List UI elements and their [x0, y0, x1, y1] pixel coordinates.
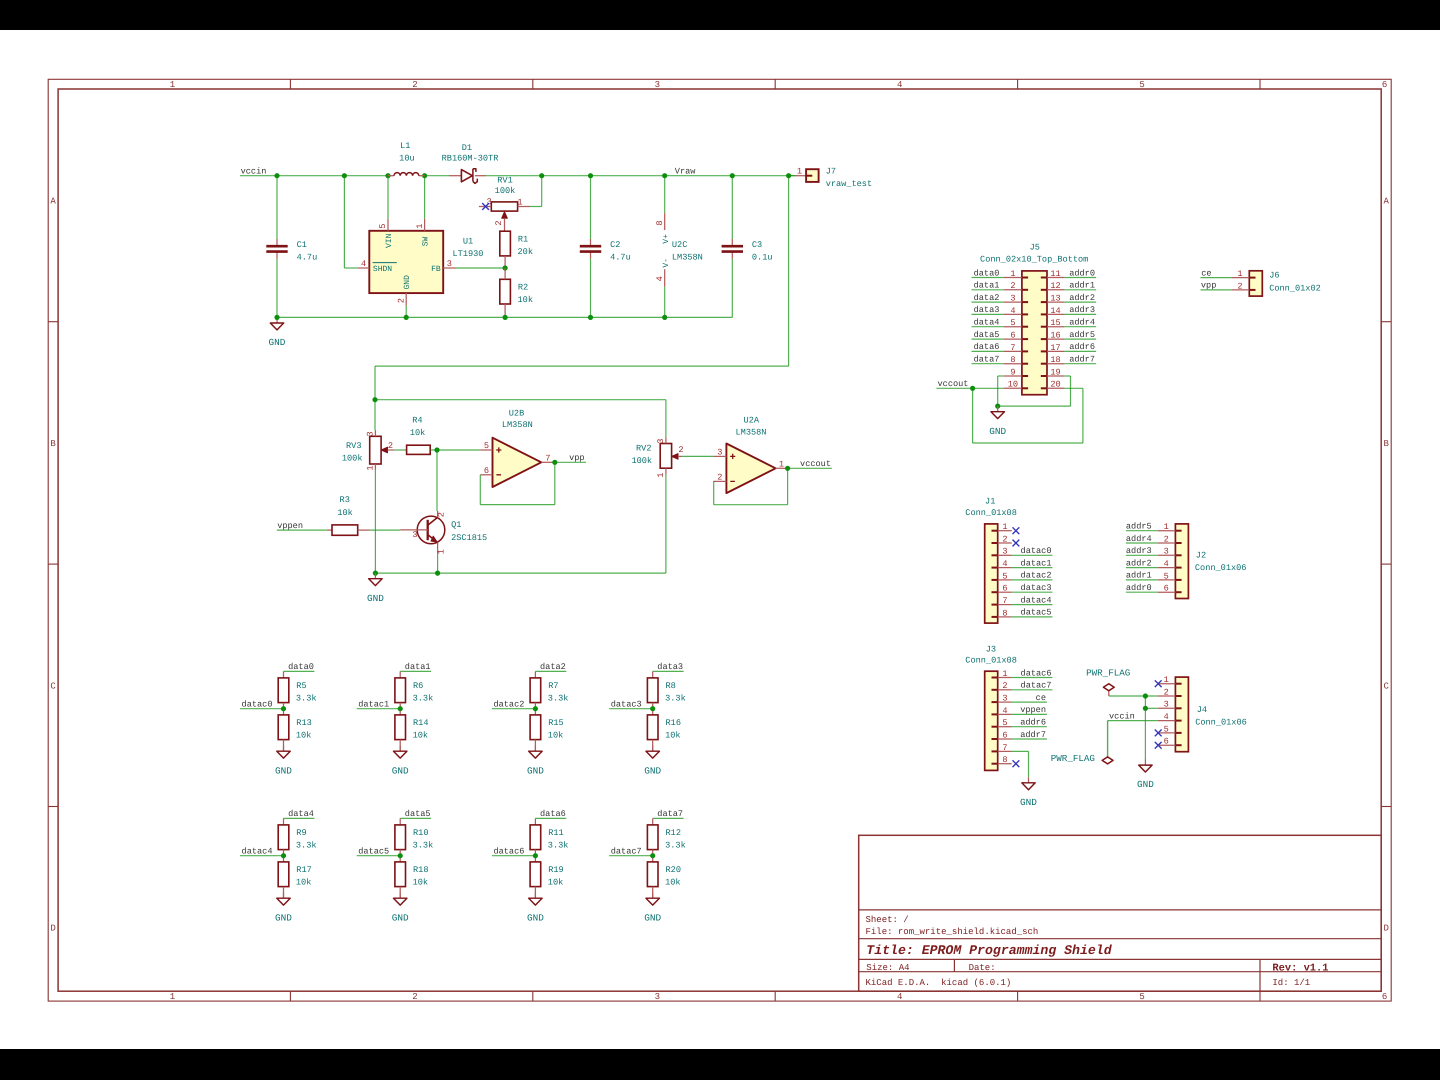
svg-text:vraw_test: vraw_test: [826, 179, 872, 189]
svg-text:R10: R10: [413, 828, 428, 838]
no-connect J1 pin 1: [1013, 527, 1020, 534]
svg-text:GND: GND: [1137, 779, 1154, 790]
wire data4: [284, 817, 315, 819]
svg-text:GND: GND: [1020, 797, 1037, 808]
wire vccout: [788, 467, 832, 469]
junction: [588, 315, 593, 320]
junction: [274, 173, 279, 178]
resistor R5: [278, 678, 316, 704]
transistor Q1: [400, 511, 487, 554]
pin 8 J5: [1004, 355, 1028, 365]
pin 2 U1 GND: [405, 293, 407, 305]
junction: [995, 404, 1000, 409]
svg-text:18: 18: [1050, 355, 1060, 365]
svg-text:1: 1: [436, 549, 446, 554]
svg-text:10k: 10k: [337, 508, 352, 518]
pin 2 J2: [1158, 534, 1182, 544]
svg-text:vpp: vpp: [1201, 281, 1216, 291]
svg-text:3: 3: [366, 431, 376, 436]
svg-text:2: 2: [1010, 281, 1015, 291]
pin 8 U2C V+: [664, 213, 666, 230]
svg-text:D: D: [1383, 924, 1388, 934]
svg-text:PWR_FLAG: PWR_FLAG: [1086, 668, 1130, 679]
pin 3 J4: [1158, 700, 1182, 710]
svg-text:datac0: datac0: [1021, 546, 1052, 556]
pin 1 J5: [1004, 269, 1028, 279]
pin 7 J5: [1004, 343, 1028, 353]
svg-text:addr0: addr0: [1069, 268, 1095, 278]
resistor R11: [530, 825, 568, 851]
svg-text:J1: J1: [985, 496, 995, 506]
svg-text:R8: R8: [666, 681, 676, 691]
pin 4 J4: [1158, 712, 1182, 722]
junction: [785, 466, 790, 471]
pin 3 U2A: [713, 455, 726, 457]
wire data5 to J5: [972, 338, 1004, 340]
svg-text:data3: data3: [657, 662, 683, 672]
svg-text:R19: R19: [548, 865, 563, 875]
svg-text:Conn_01x08: Conn_01x08: [965, 656, 1017, 666]
wire data1: [400, 670, 431, 672]
svg-text:3.3k: 3.3k: [296, 841, 317, 851]
svg-text:10: 10: [1008, 380, 1018, 390]
pin 16 J5: [1041, 330, 1065, 340]
svg-text:0.1u: 0.1u: [752, 253, 773, 263]
svg-text:GND: GND: [989, 426, 1006, 437]
svg-text:addr7: addr7: [1069, 355, 1095, 365]
svg-text:Vraw: Vraw: [675, 167, 696, 177]
svg-text:12: 12: [1050, 281, 1060, 291]
svg-text:1: 1: [517, 198, 522, 208]
svg-text:Conn_01x06: Conn_01x06: [1195, 563, 1247, 573]
svg-text:3: 3: [656, 439, 666, 444]
pin 5 U1 VIN: [387, 219, 389, 231]
ground rail wire: [277, 316, 732, 318]
svg-text:SHDN: SHDN: [373, 265, 392, 274]
svg-text:data1: data1: [405, 662, 431, 672]
pin 5 J4: [1158, 724, 1182, 734]
svg-text:8: 8: [655, 220, 665, 225]
wire datac4: [240, 855, 284, 857]
op-amp U2C power unit: [655, 176, 703, 318]
svg-text:File: rom_write_shield.kicad_s: File: rom_write_shield.kicad_sch: [866, 927, 1039, 937]
svg-text:data5: data5: [974, 330, 1000, 340]
wire J5 pin 9 to ground: [998, 375, 1004, 377]
svg-text:data7: data7: [657, 809, 683, 819]
svg-text:10k: 10k: [665, 731, 680, 741]
svg-text:V-: V-: [662, 258, 671, 268]
pin 20 J5: [1041, 380, 1065, 390]
svg-text:6: 6: [1010, 330, 1015, 340]
svg-text:datac1: datac1: [358, 700, 389, 710]
svg-text:GND: GND: [527, 912, 544, 923]
svg-text:3: 3: [1010, 294, 1015, 304]
pin 7 J3: [992, 743, 1012, 753]
svg-text:A: A: [1383, 197, 1389, 207]
svg-text:10k: 10k: [413, 878, 428, 888]
svg-text:1: 1: [779, 459, 784, 469]
svg-text:11: 11: [1050, 269, 1060, 279]
svg-text:addr2: addr2: [1069, 293, 1095, 303]
svg-text:5: 5: [1010, 318, 1015, 328]
svg-text:5: 5: [1164, 571, 1169, 581]
svg-text:D: D: [50, 924, 55, 934]
resistor R6: [395, 678, 433, 704]
svg-text:GND: GND: [275, 765, 292, 776]
wire datac5: [357, 855, 401, 857]
svg-text:10k: 10k: [296, 731, 311, 741]
svg-text:addr6: addr6: [1069, 342, 1095, 352]
svg-text:8: 8: [1010, 355, 1015, 365]
wire vccout to J5 pin 20: [972, 388, 974, 443]
svg-text:2SC1815: 2SC1815: [451, 533, 487, 543]
junction: [373, 571, 378, 576]
resistor R2 body: [500, 279, 533, 305]
pin 5 J3: [992, 718, 1012, 728]
pin 6 J5: [1004, 330, 1028, 340]
svg-text:GND: GND: [527, 765, 544, 776]
svg-text:3: 3: [447, 259, 452, 269]
wire J1 pin 5 to datac2: [1012, 579, 1053, 581]
wire J3 pin 5 to addr6: [1012, 726, 1047, 728]
svg-text:GND: GND: [644, 912, 661, 923]
svg-text:Rev: v1.1: Rev: v1.1: [1272, 962, 1328, 974]
svg-text:R7: R7: [548, 681, 558, 691]
wire data3: [653, 670, 684, 672]
connector J3 Conn_01x08: [965, 645, 1017, 771]
svg-text:datac3: datac3: [611, 700, 642, 710]
svg-text:RV3: RV3: [346, 441, 361, 451]
svg-text:6: 6: [1164, 584, 1169, 594]
capacitor C1 plates: [266, 239, 317, 263]
wire R4 to U2B +: [437, 449, 480, 451]
no-connect J4 pin 5: [1155, 730, 1162, 737]
svg-text:2: 2: [396, 298, 406, 303]
svg-text:U2C: U2C: [672, 240, 687, 250]
junction: [1143, 706, 1148, 711]
svg-text:3: 3: [487, 197, 492, 207]
svg-text:KiCad E.D.A. kicad (6.0.1): KiCad E.D.A. kicad (6.0.1): [866, 978, 1012, 988]
junction: [503, 265, 508, 270]
ground at R14: [392, 746, 409, 777]
junction: [342, 173, 347, 178]
ground at R13: [275, 746, 292, 777]
pin 1 J3: [992, 669, 1012, 679]
resistor R3: [327, 495, 370, 535]
svg-text:J3: J3: [986, 645, 996, 655]
svg-text:2: 2: [1002, 681, 1007, 691]
pin 15 J5: [1041, 318, 1065, 328]
svg-text:2: 2: [494, 220, 504, 225]
svg-text:J4: J4: [1197, 705, 1207, 715]
pin 5 J2: [1158, 571, 1182, 581]
wire addr0 to J2 pin 6: [1126, 591, 1158, 593]
svg-text:4: 4: [655, 276, 665, 281]
pin 19 J5: [1041, 367, 1065, 377]
svg-text:8: 8: [1002, 755, 1007, 765]
ground at R16: [644, 746, 661, 777]
pin 3 J1: [992, 547, 1012, 557]
wire addr5 to J2 pin 1: [1126, 530, 1158, 532]
svg-text:10k: 10k: [410, 428, 425, 438]
wire U1 GND pin to rail: [405, 305, 407, 317]
svg-text:4: 4: [1164, 712, 1169, 722]
wire J1 pin 7 to datac4: [1012, 604, 1053, 606]
junction: [730, 173, 735, 178]
svg-text:Conn_01x06: Conn_01x06: [1195, 718, 1247, 728]
svg-text:4.7u: 4.7u: [297, 253, 318, 263]
svg-text:6: 6: [1002, 730, 1007, 740]
connector J5 Conn_02x10_Top_Bottom: [980, 243, 1088, 395]
connector J2 Conn_01x06: [1175, 524, 1246, 599]
svg-text:GND: GND: [644, 765, 661, 776]
svg-text:5: 5: [1139, 992, 1144, 1002]
pin 3 J2: [1158, 547, 1182, 557]
wire data0 to J5: [972, 277, 1004, 279]
wire data2 to J5: [972, 301, 1004, 303]
power flag PWR_FLAG upper: [1086, 668, 1130, 697]
svg-text:R2: R2: [518, 283, 528, 293]
svg-text:addr4: addr4: [1126, 534, 1152, 544]
svg-text:addr5: addr5: [1126, 522, 1152, 532]
svg-text:datac1: datac1: [1021, 558, 1052, 568]
svg-text:2: 2: [1237, 281, 1242, 291]
pin 4 J5: [1004, 306, 1028, 316]
ground at J4: [1137, 760, 1154, 791]
pin 18 J5: [1041, 355, 1065, 365]
svg-text:3: 3: [655, 80, 660, 90]
wire J3 pin 2 to datac7: [1012, 689, 1053, 691]
svg-text:VIN: VIN: [385, 233, 394, 248]
svg-text:datac7: datac7: [611, 847, 642, 857]
pin 6 U2B: [480, 474, 492, 476]
wire J5 to addr5: [1064, 338, 1096, 340]
svg-text:data2: data2: [974, 293, 1000, 303]
svg-text:Id: 1/1: Id: 1/1: [1272, 978, 1310, 988]
junction: [650, 853, 655, 858]
wire junction down to Q1 collector: [436, 450, 438, 511]
svg-text:2: 2: [717, 472, 722, 482]
connector J7 vraw_test: [789, 166, 873, 189]
svg-text:3.3k: 3.3k: [296, 694, 317, 704]
wire data7: [653, 817, 684, 819]
svg-text:data6: data6: [540, 809, 566, 819]
wire to U1 VIN pin: [387, 176, 389, 219]
svg-text:LT1930: LT1930: [453, 249, 484, 259]
wire RV2 wiper to U2A +: [682, 455, 713, 457]
svg-text:5: 5: [484, 441, 489, 451]
svg-text:A: A: [50, 197, 56, 207]
svg-text:LM358N: LM358N: [736, 427, 767, 437]
svg-text:datac4: datac4: [1021, 595, 1052, 605]
junction: [662, 315, 667, 320]
wire datac6: [492, 855, 536, 857]
wire L1 to D1: [424, 175, 449, 177]
svg-text:addr0: addr0: [1126, 583, 1152, 593]
svg-text:3: 3: [1002, 547, 1007, 557]
svg-text:R1: R1: [518, 235, 528, 245]
svg-text:datac2: datac2: [493, 700, 524, 710]
svg-text:addr6: addr6: [1020, 718, 1046, 728]
title block: [859, 835, 1381, 991]
svg-text:6: 6: [1164, 737, 1169, 747]
svg-text:C3: C3: [752, 240, 762, 250]
wire U2B feedback: [554, 462, 556, 504]
junction: [503, 315, 508, 320]
svg-text:data0: data0: [974, 268, 1000, 278]
svg-text:14: 14: [1050, 306, 1060, 316]
svg-text:4: 4: [1164, 559, 1169, 569]
svg-text:3.3k: 3.3k: [413, 694, 434, 704]
svg-text:Conn_02x10_Top_Bottom: Conn_02x10_Top_Bottom: [980, 255, 1088, 265]
ground at Q1 rail: [367, 573, 384, 604]
pin 5 U2B: [480, 449, 492, 451]
pin 6 J2: [1158, 584, 1182, 594]
svg-text:Q1: Q1: [451, 520, 461, 530]
svg-text:Title: EPROM Programming Shiel: Title: EPROM Programming Shield: [866, 943, 1112, 958]
pin 12 J5: [1041, 281, 1065, 291]
svg-text:L1: L1: [400, 141, 410, 151]
pin 9 J5: [1004, 367, 1028, 377]
wire J5 to addr4: [1064, 326, 1096, 328]
junction: [398, 853, 403, 858]
junction: [533, 706, 538, 711]
svg-text:R4: R4: [412, 416, 422, 426]
ground at J3: [1020, 777, 1037, 808]
svg-text:R14: R14: [413, 718, 428, 728]
svg-text:1: 1: [1002, 522, 1007, 532]
junction: [650, 706, 655, 711]
svg-text:GND: GND: [403, 275, 412, 290]
wire to C1: [276, 176, 278, 239]
wire U2A feedback: [787, 468, 789, 504]
svg-text:2: 2: [1164, 687, 1169, 697]
svg-text:RV1: RV1: [497, 176, 512, 186]
wire J1 pin 8 to datac5: [1012, 616, 1053, 618]
wire RV1 pin1 up to Vraw: [530, 206, 542, 208]
pin 1 U1 SW: [424, 219, 426, 231]
svg-text:vccin: vccin: [241, 167, 267, 177]
svg-text:6: 6: [1382, 80, 1387, 90]
svg-text:6: 6: [484, 466, 489, 476]
ground at R17: [275, 893, 292, 924]
svg-text:J6: J6: [1269, 271, 1279, 281]
svg-text:B: B: [50, 439, 56, 449]
wire FB to R1/R2 node: [456, 267, 506, 269]
svg-text:4.7u: 4.7u: [610, 253, 631, 263]
wire datac0: [240, 708, 284, 710]
resistor R12: [647, 825, 685, 851]
pin 3 J5: [1004, 294, 1028, 304]
svg-text:R17: R17: [296, 865, 311, 875]
resistor R18: [395, 862, 429, 888]
svg-text:10k: 10k: [548, 878, 563, 888]
pin 1 J4: [1158, 675, 1182, 685]
ground at R18: [392, 893, 409, 924]
wire J3 pin 1 to datac6: [1012, 677, 1053, 679]
junction: [434, 447, 439, 452]
wire RV3 pin1 to ground rail: [374, 470, 376, 573]
wire vccout to J5 pin 10: [936, 387, 1004, 389]
svg-text:4: 4: [1002, 559, 1007, 569]
svg-text:U2B: U2B: [509, 409, 524, 419]
svg-text:3: 3: [1164, 547, 1169, 557]
pin 6 J1: [992, 584, 1012, 594]
svg-text:9: 9: [1010, 367, 1015, 377]
potentiometer RV1: [479, 176, 530, 232]
svg-text:3.3k: 3.3k: [548, 694, 569, 704]
svg-text:data2: data2: [540, 662, 566, 672]
svg-text:U2A: U2A: [744, 416, 760, 426]
wire J3 pin 3 to ce: [1012, 701, 1047, 703]
svg-text:8: 8: [1002, 608, 1007, 618]
svg-text:10k: 10k: [518, 295, 533, 305]
wire D1 to J7 and Vraw: [486, 175, 796, 177]
no-connect J4 pin 1: [1155, 680, 1162, 687]
wire data3 to J5: [972, 313, 1004, 315]
pin 4 J2: [1158, 559, 1182, 569]
wire J5 to addr3: [1064, 313, 1096, 315]
wire addr2 to J2 pin 4: [1126, 567, 1158, 569]
svg-text:3.3k: 3.3k: [548, 841, 569, 851]
wire data5: [400, 817, 431, 819]
svg-text:5: 5: [378, 224, 388, 229]
svg-text:20: 20: [1050, 380, 1060, 390]
wire data2: [535, 670, 566, 672]
svg-text:FB: FB: [431, 265, 441, 274]
svg-text:R6: R6: [413, 681, 423, 691]
wire down to RV3: [374, 400, 376, 430]
pin 5 J5: [1004, 318, 1028, 328]
svg-text:J7: J7: [826, 166, 836, 176]
connector J6 Conn_01x02: [1249, 271, 1320, 297]
wire J1 pin 6 to datac3: [1012, 591, 1053, 593]
svg-text:D1: D1: [462, 143, 472, 153]
svg-text:1: 1: [366, 465, 376, 470]
wire J3 pin 6 to addr7: [1012, 738, 1047, 740]
wire vpp: [555, 461, 586, 463]
wire data4 to J5: [972, 326, 1004, 328]
svg-text:10u: 10u: [399, 154, 414, 164]
svg-text:100k: 100k: [342, 453, 363, 463]
svg-text:C2: C2: [610, 240, 620, 250]
svg-text:C1: C1: [297, 240, 307, 250]
resistor R15: [530, 715, 564, 741]
svg-text:data1: data1: [974, 281, 1000, 291]
svg-text:LM358N: LM358N: [502, 420, 533, 430]
wire datac7: [609, 855, 653, 857]
svg-text:U1: U1: [463, 236, 473, 246]
ground at R20: [644, 893, 661, 924]
pin 7 U2B: [541, 461, 555, 463]
no-connect J1 pin 2: [1013, 540, 1020, 547]
svg-text:Conn_01x08: Conn_01x08: [965, 508, 1017, 518]
svg-text:addr3: addr3: [1069, 305, 1095, 315]
svg-text:SW: SW: [422, 236, 431, 246]
ground at C1: [269, 317, 286, 348]
junction: [435, 571, 440, 576]
svg-text:6: 6: [1382, 992, 1387, 1002]
svg-text:data4: data4: [974, 318, 1000, 328]
svg-text:datac2: datac2: [1021, 571, 1052, 581]
wire J5 to addr1: [1064, 289, 1096, 291]
pin 7 J1: [992, 596, 1012, 606]
svg-text:ce: ce: [1036, 693, 1046, 703]
svg-text:Size: A4: Size: A4: [866, 963, 909, 973]
pin 4 U1 SHDN: [358, 267, 369, 269]
svg-text:R3: R3: [340, 495, 350, 505]
resistor R13: [278, 715, 312, 741]
